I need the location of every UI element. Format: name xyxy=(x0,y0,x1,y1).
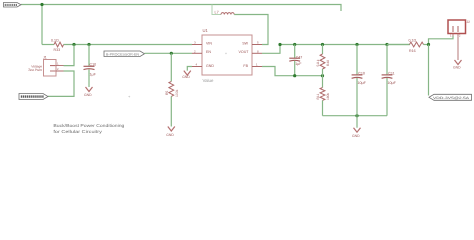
ground under C10 xyxy=(84,87,93,97)
svg-text:0.1Ω: 0.1Ω xyxy=(51,39,59,43)
wire battery top rail xyxy=(21,5,341,12)
node battery/VIN junction xyxy=(40,3,43,6)
capacitor C47 xyxy=(289,45,302,76)
svg-text:FB: FB xyxy=(243,64,248,68)
svg-text:R11: R11 xyxy=(316,94,320,100)
svg-text:1μF: 1μF xyxy=(295,62,302,66)
resistor R48 upper divider xyxy=(316,45,330,76)
wire VIN row left segment xyxy=(42,44,54,46)
svg-text:180k: 180k xyxy=(326,92,330,100)
svg-text:SW: SW xyxy=(242,42,248,46)
svg-text:1μF: 1μF xyxy=(90,72,97,76)
wire VOUT rail xyxy=(280,44,410,46)
svg-text:+: + xyxy=(225,52,227,56)
svg-text:R48: R48 xyxy=(326,60,330,66)
op-amp/regulator U1 xyxy=(192,28,262,75)
connector J1 xyxy=(28,56,64,76)
wire VOUT to rail xyxy=(262,45,280,54)
pin 5 SW xyxy=(252,44,262,46)
wire output to flag xyxy=(428,45,430,96)
svg-text:10μF: 10μF xyxy=(387,81,396,85)
wire junction to connector pin 1 xyxy=(429,36,454,45)
wire R5 to ground xyxy=(170,96,172,126)
title text xyxy=(53,123,125,134)
svg-text:C10: C10 xyxy=(90,63,97,67)
pin 8 VOUT xyxy=(252,52,262,54)
svg-text:2: 2 xyxy=(57,67,59,71)
svg-text:GND: GND xyxy=(206,64,214,68)
svg-text:VIN: VIN xyxy=(206,42,212,46)
svg-text:GND: GND xyxy=(84,93,92,97)
wire EN net xyxy=(145,52,193,54)
resistor R5 xyxy=(165,81,179,97)
wire battery drop to VIN row xyxy=(41,5,43,45)
wire L7 to SW xyxy=(234,15,268,45)
node C10 junction xyxy=(87,43,90,46)
ground under rail xyxy=(352,128,361,138)
svg-text:R5: R5 xyxy=(165,91,169,95)
svg-text:L7: L7 xyxy=(215,10,219,14)
capacitor C30 xyxy=(352,45,367,116)
pin 4 GND xyxy=(192,66,202,68)
svg-text:GND: GND xyxy=(182,75,190,79)
wire L7 left lead xyxy=(212,5,221,15)
wire rail to R16 xyxy=(387,44,410,46)
wire connector pin2 to ground xyxy=(457,36,459,60)
svg-text:+: + xyxy=(128,94,131,99)
node divider mid xyxy=(321,74,324,77)
node C31 top xyxy=(385,43,388,46)
wire R16 to junction xyxy=(424,44,429,46)
resistor R16 xyxy=(409,39,424,54)
pin 2 EN xyxy=(192,52,202,54)
node ground rail xyxy=(355,114,358,117)
ground under U1 xyxy=(182,71,191,80)
pin 1 FB xyxy=(252,66,262,68)
net flag battery return xyxy=(19,94,48,100)
wire bottom ground rail xyxy=(323,115,388,117)
capacitor C10 input xyxy=(84,45,97,88)
resistor R33 xyxy=(51,39,64,52)
svg-text:C11: C11 xyxy=(388,71,395,75)
net flag processor enable xyxy=(104,51,145,57)
node divider top xyxy=(321,43,324,46)
svg-text:Buck/Boost Power Conditioning: Buck/Boost Power Conditioning xyxy=(53,123,125,128)
svg-text:R33: R33 xyxy=(54,48,61,52)
svg-text:for Cellular Circuitry: for Cellular Circuitry xyxy=(53,129,103,134)
wire FB net xyxy=(262,67,323,76)
wire J1 pin1 xyxy=(64,45,75,66)
svg-text:U1: U1 xyxy=(203,28,209,33)
resistor R11 lower divider xyxy=(316,76,330,116)
node output junction xyxy=(427,43,430,46)
capacitor C31 xyxy=(382,45,397,116)
svg-text:Value: Value xyxy=(203,78,214,83)
svg-text:GND: GND xyxy=(453,66,461,70)
ground under connector xyxy=(453,60,462,70)
svg-text:R16: R16 xyxy=(409,49,416,53)
ground under R5 xyxy=(166,127,175,138)
svg-text:GND: GND xyxy=(166,133,174,137)
wire ground stub xyxy=(356,116,358,128)
svg-text:100k: 100k xyxy=(175,89,179,97)
svg-text:511k: 511k xyxy=(316,59,320,66)
node C30 top xyxy=(355,43,358,46)
svg-text:EN: EN xyxy=(206,50,211,54)
node EN junction xyxy=(170,52,173,55)
wire U1 GND pin to ground xyxy=(187,67,192,71)
svg-text:B-PROCESSOR-EN: B-PROCESSOR-EN xyxy=(106,52,140,56)
net flag VDD output xyxy=(429,94,472,100)
wire J1 pin2 to flag xyxy=(48,71,74,96)
svg-text:GND: GND xyxy=(352,134,360,138)
net flag battery input xyxy=(4,3,22,8)
svg-text:Test Point: Test Point xyxy=(28,68,42,72)
pin 3 VIN xyxy=(192,44,202,46)
svg-text:0.1Ω: 0.1Ω xyxy=(409,39,417,43)
svg-text:VOUT: VOUT xyxy=(239,50,250,54)
svg-text:1: 1 xyxy=(57,62,59,66)
svg-text:C10: C10 xyxy=(358,71,365,75)
svg-text:10μF: 10μF xyxy=(357,81,366,85)
svg-text:VDD-3V5@2.5A: VDD-3V5@2.5A xyxy=(433,96,470,100)
node J1 junction xyxy=(72,43,75,46)
node C47 top xyxy=(293,43,296,46)
svg-text:J2: J2 xyxy=(467,20,471,24)
connector J2 xyxy=(448,20,470,38)
inductor L7 xyxy=(215,10,235,14)
node C47 bottom xyxy=(293,74,296,77)
wire VIN row to U1 xyxy=(64,44,192,46)
node VOUT rail start xyxy=(278,43,281,46)
svg-text:C47: C47 xyxy=(296,55,303,59)
wire EN pulldown xyxy=(170,53,172,81)
